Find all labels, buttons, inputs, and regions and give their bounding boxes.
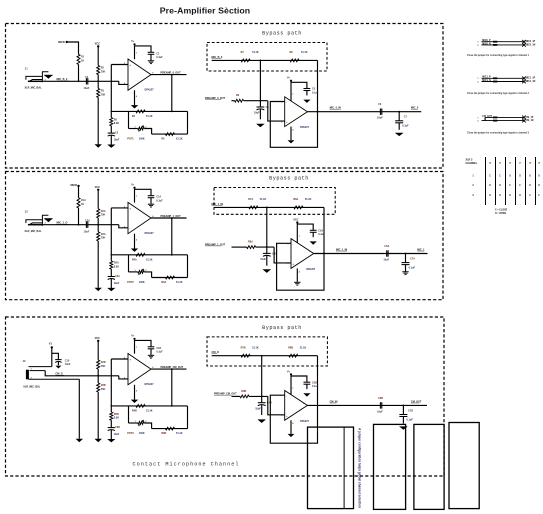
svg-text:C7A: C7A bbox=[410, 258, 415, 261]
wire jog to noninverting input bbox=[274, 247, 291, 263]
svg-text:0.1uF: 0.1uF bbox=[409, 267, 416, 270]
svg-text:51.1K: 51.1K bbox=[176, 432, 183, 435]
ground bbox=[95, 144, 102, 147]
diagram dashed channel box 3 bbox=[6, 317, 445, 476]
svg-text:10uF: 10uF bbox=[114, 138, 120, 141]
svg-text:POT2: POT2 bbox=[127, 281, 134, 284]
resistor R1A 1K bias bbox=[77, 198, 80, 208]
svg-text:MIC_B_0: MIC_B_0 bbox=[57, 77, 68, 81]
wire output PREAMP bbox=[151, 74, 187, 76]
junction bbox=[405, 253, 407, 255]
wire feedback top rail bbox=[111, 110, 188, 112]
svg-text:VCC: VCC bbox=[95, 42, 101, 46]
pin no-connect mark bottom bbox=[522, 43, 526, 47]
wire bias to input bbox=[78, 65, 80, 82]
op-amp U3A bbox=[128, 354, 151, 385]
connector J6 jumper header bbox=[484, 117, 486, 120]
svg-text:MIC0_1N: MIC0_1N bbox=[526, 44, 536, 46]
wire supply pin bbox=[296, 224, 298, 243]
svg-text:PREAMP_CM_OUT: PREAMP_CM_OUT bbox=[161, 366, 184, 369]
svg-text:10uF: 10uF bbox=[377, 410, 383, 413]
svg-text:C10: C10 bbox=[65, 359, 70, 362]
junction bbox=[261, 396, 263, 398]
svg-text:0.1uF: 0.1uF bbox=[156, 199, 163, 202]
connector J2 XLR input jack bbox=[26, 220, 42, 223]
resistor R2 75K divider upper bbox=[97, 65, 100, 74]
diagram connector block outline 4 bbox=[449, 423, 479, 509]
junction bbox=[260, 60, 262, 62]
wire bbox=[306, 384, 308, 389]
connector J1 XLR input jack bbox=[26, 76, 42, 79]
resistor R6A 51.1K bottom bbox=[165, 276, 174, 279]
wire bbox=[306, 91, 308, 96]
capacitor C10 10uF bias decoupling bbox=[55, 359, 61, 361]
svg-text:10uF: 10uF bbox=[255, 407, 261, 410]
svg-text:R9A: R9A bbox=[248, 241, 253, 244]
wire feedback from output bbox=[171, 218, 173, 255]
svg-text:C1A: C1A bbox=[156, 196, 161, 199]
resistor R7B 51.1K bypass bbox=[241, 354, 250, 357]
svg-text:O: O bbox=[499, 185, 501, 187]
wire bbox=[97, 75, 99, 89]
svg-text:R5B: R5B bbox=[114, 413, 119, 416]
svg-text:PREAMP_1_OUT: PREAMP_1_OUT bbox=[161, 215, 182, 218]
wire bypass rail bbox=[214, 206, 324, 208]
svg-text:CHANNEL: CHANNEL bbox=[466, 162, 478, 165]
svg-text:C7B: C7B bbox=[408, 409, 413, 412]
op-amp U3B bbox=[285, 391, 308, 421]
wire output PREAMP bbox=[151, 368, 187, 370]
wire op-amp ground pin bbox=[290, 127, 292, 141]
ground bbox=[288, 434, 295, 437]
wire bbox=[110, 279, 112, 288]
junction bbox=[171, 405, 173, 407]
svg-text:R2B: R2B bbox=[101, 361, 106, 364]
svg-text:R9B: R9B bbox=[241, 390, 246, 393]
wire bbox=[144, 272, 151, 278]
svg-text:O = OPEN: O = OPEN bbox=[495, 213, 506, 215]
wire op-amp ground pin bbox=[290, 420, 292, 434]
svg-text:75K: 75K bbox=[101, 237, 106, 240]
diagram dashed bypass box 3 bbox=[207, 337, 327, 366]
svg-text:MICB: MICB bbox=[70, 183, 77, 187]
wire bbox=[256, 246, 275, 248]
resistor R8B 51.1K bypass bbox=[289, 354, 298, 357]
svg-text:51.1K: 51.1K bbox=[300, 347, 307, 350]
svg-text:C5B: C5B bbox=[312, 381, 317, 384]
wire bbox=[110, 420, 112, 427]
junction bbox=[97, 80, 99, 82]
wire bbox=[405, 265, 407, 272]
wire bypass tap down bbox=[261, 356, 263, 397]
potentiometer POT2 100K gain adjust bbox=[138, 271, 144, 274]
svg-text:51.1K: 51.1K bbox=[176, 281, 183, 284]
wire output PREAMP bbox=[151, 217, 187, 219]
svg-text:R7B: R7B bbox=[241, 347, 246, 350]
wire jog to noninverting input bbox=[268, 101, 285, 121]
ground bbox=[256, 124, 265, 128]
jumper shunt top bbox=[493, 117, 497, 119]
wire bbox=[259, 109, 261, 119]
resistor R7A 51.1K bypass bbox=[249, 206, 258, 209]
svg-text:-: - bbox=[286, 394, 287, 398]
wire feedback loop bbox=[270, 395, 317, 443]
wire feedback right edge bbox=[187, 406, 189, 429]
ground bbox=[76, 439, 83, 442]
capacitor C2A 10uF input coupling bbox=[85, 222, 87, 228]
resistor R8 51.1K bypass bbox=[290, 59, 299, 62]
svg-text:0.1uF: 0.1uF bbox=[312, 385, 319, 388]
svg-text:R4B: R4B bbox=[132, 410, 137, 413]
wire supply to bypass cap bbox=[135, 340, 152, 346]
wire bypass rail bbox=[212, 59, 318, 61]
wire feedback from output bbox=[171, 75, 173, 112]
svg-text:MIC1_1N: MIC1_1N bbox=[526, 81, 536, 83]
wire output bbox=[307, 111, 421, 113]
svg-text:-: - bbox=[129, 227, 130, 231]
capacitor C7B 0.1uF shunt bbox=[402, 405, 404, 414]
svg-text:75K: 75K bbox=[101, 93, 106, 96]
wire bias to input bbox=[78, 208, 80, 225]
wire feedback right edge bbox=[187, 255, 189, 278]
svg-text:R5A: R5A bbox=[114, 262, 119, 265]
wire bbox=[110, 135, 112, 144]
svg-text:Pre-Amplifier Sèction: Pre-Amplifier Sèction bbox=[160, 6, 250, 16]
wire supply to bypass cap bbox=[297, 224, 313, 230]
wire feedback top rail bbox=[111, 405, 188, 407]
potentiometer POT3 100K gain adjust bbox=[138, 422, 144, 425]
junction bbox=[171, 254, 173, 256]
svg-text:75K: 75K bbox=[101, 70, 106, 73]
diagram connector block outline 1 bbox=[308, 427, 354, 509]
wire bbox=[266, 256, 268, 266]
capacitor C3 10uF gain leg bbox=[108, 132, 115, 134]
svg-text:CM_O: CM_O bbox=[212, 350, 219, 354]
resistor R4 51.1K feedback bbox=[136, 110, 145, 113]
resistor R5 8.2K gain leg bbox=[110, 111, 112, 117]
wire output bbox=[314, 253, 428, 255]
svg-text:R1A: R1A bbox=[81, 199, 86, 202]
svg-text:51.1K: 51.1K bbox=[146, 115, 153, 118]
wire output bbox=[307, 404, 427, 406]
resistor R7 51.1K bypass bbox=[241, 59, 250, 62]
svg-text:MIC1_P: MIC1_P bbox=[482, 77, 491, 79]
resistor R2A 75K divider upper bbox=[97, 209, 100, 218]
junction bbox=[171, 368, 173, 370]
svg-text:10uF: 10uF bbox=[84, 87, 90, 90]
wire bbox=[57, 362, 59, 366]
diagram connector block divider bbox=[343, 427, 345, 509]
resistor R6B 51.1K bottom bbox=[165, 427, 174, 430]
svg-text:O: O bbox=[538, 185, 540, 187]
wire feedback bottom rail bbox=[152, 428, 188, 430]
wire bbox=[110, 269, 112, 276]
svg-text:MIC1_1P: MIC1_1P bbox=[526, 78, 536, 80]
wire op-amp ground pin bbox=[296, 268, 298, 282]
jumper shunt top bbox=[493, 41, 497, 43]
svg-text:10uF: 10uF bbox=[254, 112, 260, 115]
ground bbox=[399, 426, 408, 429]
svg-text:C = CLOSE: C = CLOSE bbox=[495, 210, 508, 212]
capacitor C1 0.1uF supply bypass bbox=[148, 51, 155, 53]
svg-text:OPA227: OPA227 bbox=[144, 383, 154, 386]
wire bbox=[150, 198, 152, 204]
svg-text:XLR_MIC_BAL: XLR_MIC_BAL bbox=[25, 87, 43, 90]
svg-text:POT1: POT1 bbox=[127, 138, 134, 141]
svg-text:10uF: 10uF bbox=[65, 363, 71, 366]
wire input net bbox=[43, 224, 119, 226]
wire supply to bypass cap bbox=[135, 46, 152, 52]
junction bbox=[261, 355, 263, 357]
ground bbox=[55, 366, 61, 369]
svg-text:0.1uF: 0.1uF bbox=[407, 418, 414, 421]
diagram jumper selection table bbox=[466, 157, 541, 215]
wire bbox=[97, 218, 99, 232]
connector J5 jumper header bbox=[482, 77, 524, 79]
wire bbox=[402, 417, 404, 424]
ground bbox=[148, 60, 154, 62]
jumper shunt bottom bbox=[493, 44, 497, 46]
svg-text:MIC0_P: MIC0_P bbox=[482, 40, 491, 42]
capacitor C1A 0.1uF supply bypass bbox=[148, 195, 155, 197]
op-amp U1B bbox=[285, 97, 308, 127]
wire op-amp ground pin bbox=[134, 90, 136, 105]
junction bbox=[403, 405, 405, 407]
svg-text:Close the jumper for connectin: Close the jumper for connecting type sig… bbox=[467, 92, 530, 95]
wire bbox=[150, 349, 152, 355]
svg-text:1K: 1K bbox=[81, 60, 84, 63]
svg-text:51.1K: 51.1K bbox=[252, 51, 259, 54]
svg-text:A jumper configuration helps g: A jumper configuration helps global chan… bbox=[358, 428, 362, 508]
ground bbox=[95, 288, 102, 291]
wire supply pin bbox=[290, 375, 292, 394]
svg-text:10uF: 10uF bbox=[377, 117, 383, 120]
wire op-amp ground pin bbox=[134, 234, 136, 249]
junction bbox=[317, 111, 319, 113]
svg-text:VCC: VCC bbox=[95, 185, 101, 189]
svg-text:CM_OUT: CM_OUT bbox=[482, 116, 492, 118]
wire input net bbox=[43, 80, 119, 82]
wire supply pin bbox=[290, 82, 292, 101]
svg-text:Contact Microphone Channel: Contact Microphone Channel bbox=[133, 462, 240, 468]
svg-text:VCC: VCC bbox=[293, 219, 298, 222]
svg-text:R4A: R4A bbox=[132, 258, 137, 261]
svg-text:-: - bbox=[292, 242, 293, 246]
jumper shunt bottom bbox=[493, 120, 497, 122]
svg-text:C3B: C3B bbox=[115, 426, 120, 429]
resistor R4A 51.1K feedback bbox=[136, 253, 145, 256]
wire bypass right leg down bbox=[323, 207, 325, 253]
wire inverting input bbox=[119, 81, 128, 84]
svg-text:POT3: POT3 bbox=[127, 432, 134, 435]
ground bbox=[395, 133, 404, 136]
svg-text:Close the jumper for connectin: Close the jumper for connecting type sig… bbox=[467, 131, 530, 134]
svg-text:-: - bbox=[286, 100, 287, 104]
wire feedback right edge bbox=[187, 111, 189, 134]
svg-text:C6A: C6A bbox=[384, 245, 389, 248]
svg-text:10uF: 10uF bbox=[114, 433, 120, 436]
ground bbox=[303, 393, 310, 396]
pin no-connect mark bottom bbox=[522, 119, 526, 123]
resistor R3B 75K divider lower bbox=[97, 383, 100, 392]
resistor R9B input bbox=[232, 395, 241, 397]
svg-text:0.1uF: 0.1uF bbox=[312, 91, 319, 94]
capacitor C5 0.1uF supply bypass bbox=[304, 88, 311, 90]
wire bbox=[144, 129, 151, 135]
svg-text:XLR_MIC_BAL: XLR_MIC_BAL bbox=[25, 230, 43, 233]
junction bbox=[266, 246, 268, 248]
ground bbox=[131, 105, 138, 108]
svg-text:O: O bbox=[529, 176, 531, 178]
diagram connector block outline 3 bbox=[414, 424, 444, 509]
resistor R8A 51.1K bypass bbox=[294, 206, 303, 209]
svg-text:R2A: R2A bbox=[101, 210, 106, 213]
svg-text:OPA227: OPA227 bbox=[144, 232, 154, 235]
connector J4 jumper header bbox=[482, 41, 524, 43]
junction bbox=[171, 111, 173, 113]
resistor R3A 75K divider lower bbox=[97, 232, 100, 241]
wire supply pin bbox=[134, 340, 136, 354]
junction bbox=[78, 224, 80, 226]
wire bbox=[110, 430, 112, 439]
wire bbox=[110, 126, 112, 133]
ground bbox=[294, 281, 300, 283]
svg-text:O: O bbox=[529, 185, 531, 187]
ground bbox=[107, 145, 115, 148]
ground bbox=[257, 419, 266, 423]
connector J3 contact microphone jack bbox=[26, 370, 29, 380]
capacitor C3B 10uF gain leg bbox=[108, 427, 115, 429]
svg-text:XLR_MIC_BAL: XLR_MIC_BAL bbox=[23, 386, 41, 389]
ground bbox=[402, 271, 408, 273]
capacitor C4B 10uF to ground bbox=[261, 396, 263, 402]
svg-text:R6B: R6B bbox=[161, 432, 166, 435]
svg-text:R8B: R8B bbox=[288, 347, 293, 350]
svg-text:0.1uF: 0.1uF bbox=[156, 351, 163, 354]
wire bypass tap down bbox=[259, 60, 261, 100]
resistor R1 1K bias bbox=[77, 54, 80, 64]
capacitor C4A 10uF to ground bbox=[266, 247, 268, 253]
op-amp U1A bbox=[128, 59, 151, 90]
svg-text:8.2K: 8.2K bbox=[114, 416, 119, 419]
wire feedback bottom rail bbox=[152, 133, 188, 135]
wire inverting input bbox=[119, 376, 128, 379]
svg-text:C1B: C1B bbox=[156, 347, 161, 350]
pin no-connect mark top bbox=[522, 116, 526, 120]
wire bbox=[144, 423, 151, 429]
svg-text:R8A: R8A bbox=[293, 198, 298, 201]
svg-text:OPA227: OPA227 bbox=[300, 420, 310, 423]
wire bypass right leg down bbox=[317, 356, 319, 406]
svg-text:MIC_1_O: MIC_1_O bbox=[57, 221, 68, 225]
svg-text:100K: 100K bbox=[139, 281, 145, 284]
wire sleeve to ground bbox=[78, 379, 80, 439]
svg-text:MIC_B_0: MIC_B_0 bbox=[212, 55, 223, 59]
svg-text:O: O bbox=[519, 176, 521, 178]
svg-text:75K: 75K bbox=[101, 365, 106, 368]
svg-text:Bypass path: Bypass path bbox=[262, 31, 302, 37]
wire bbox=[312, 232, 314, 237]
wire bbox=[97, 191, 99, 209]
wire bbox=[97, 342, 99, 360]
wire supply pin bbox=[134, 45, 136, 59]
diagram dashed channel box 1 bbox=[6, 24, 444, 169]
junction bbox=[266, 207, 268, 209]
resistor R2B 75K divider upper bbox=[97, 360, 100, 369]
resistor R6 51.1K bottom bbox=[165, 133, 174, 136]
svg-text:MIC1_N: MIC1_N bbox=[482, 80, 491, 82]
svg-text:1K: 1K bbox=[81, 203, 84, 206]
svg-text:O: O bbox=[509, 195, 511, 197]
capacitor C5A 0.1uF supply bypass bbox=[310, 229, 317, 231]
svg-text:0.1uF: 0.1uF bbox=[318, 233, 325, 236]
ground bbox=[288, 140, 295, 143]
wire supply to bypass cap bbox=[135, 189, 152, 195]
svg-text:C3A: C3A bbox=[115, 275, 120, 278]
capacitor C4 10uF to ground bbox=[259, 101, 261, 107]
wire bypass rail bbox=[212, 355, 318, 357]
wire bbox=[398, 123, 400, 130]
svg-text:MIC0_N: MIC0_N bbox=[482, 43, 491, 45]
svg-text:10uF: 10uF bbox=[84, 230, 90, 233]
capacitor C2 10uF input coupling bbox=[85, 78, 87, 84]
capacitor C7 0.1uF shunt bbox=[398, 112, 400, 121]
wire jog to noninverting input bbox=[268, 396, 285, 414]
capacitor C7A 0.1uF shunt bbox=[405, 254, 407, 263]
svg-text:51.1K: 51.1K bbox=[301, 51, 308, 54]
wire MICB stub bbox=[78, 187, 80, 198]
diagram dashed bypass box 1 bbox=[207, 43, 327, 72]
wire supply to bypass cap bbox=[291, 82, 307, 88]
svg-text:100K: 100K bbox=[139, 432, 145, 435]
wire MICB stub bbox=[68, 42, 79, 54]
capacitor C6B 10uF output coupling bbox=[379, 402, 381, 408]
svg-text:CM_O: CM_O bbox=[55, 372, 62, 376]
junction bbox=[97, 375, 99, 377]
op-amp U2B bbox=[291, 239, 314, 269]
wire feedback loop bbox=[270, 102, 317, 148]
wire pot branch bbox=[128, 406, 130, 423]
wire feedback loop bbox=[277, 243, 324, 290]
svg-text:C2A: C2A bbox=[85, 219, 90, 222]
op-amp U2A bbox=[128, 202, 151, 233]
svg-text:O: O bbox=[489, 195, 491, 197]
wire bbox=[261, 405, 263, 415]
wire divider to ground bbox=[97, 392, 99, 439]
svg-text:OPA227: OPA227 bbox=[306, 268, 316, 271]
ground bbox=[148, 203, 154, 205]
svg-text:OPA227: OPA227 bbox=[300, 126, 310, 129]
ground bbox=[95, 439, 102, 442]
svg-text:51.1K: 51.1K bbox=[176, 138, 183, 141]
ground bbox=[131, 249, 138, 252]
capacitor C6 10uF output coupling bbox=[379, 109, 381, 115]
wire divider to ground bbox=[97, 98, 99, 145]
ground bbox=[131, 400, 138, 403]
svg-text:10uF: 10uF bbox=[260, 258, 266, 261]
svg-text:51.1K: 51.1K bbox=[252, 347, 259, 350]
wire supply to bypass cap bbox=[291, 376, 307, 382]
junction bbox=[323, 253, 325, 255]
wire feedback bottom rail bbox=[152, 277, 188, 279]
junction bbox=[260, 100, 262, 102]
svg-text:OPA227: OPA227 bbox=[144, 88, 154, 91]
svg-text:O: O bbox=[499, 195, 501, 197]
potentiometer POT1 100K gain adjust bbox=[138, 127, 144, 130]
capacitor C6A 10uF output coupling bbox=[386, 250, 388, 256]
resistor R5B 8.2K gain leg bbox=[110, 406, 112, 412]
svg-text:C6B: C6B bbox=[378, 397, 383, 400]
